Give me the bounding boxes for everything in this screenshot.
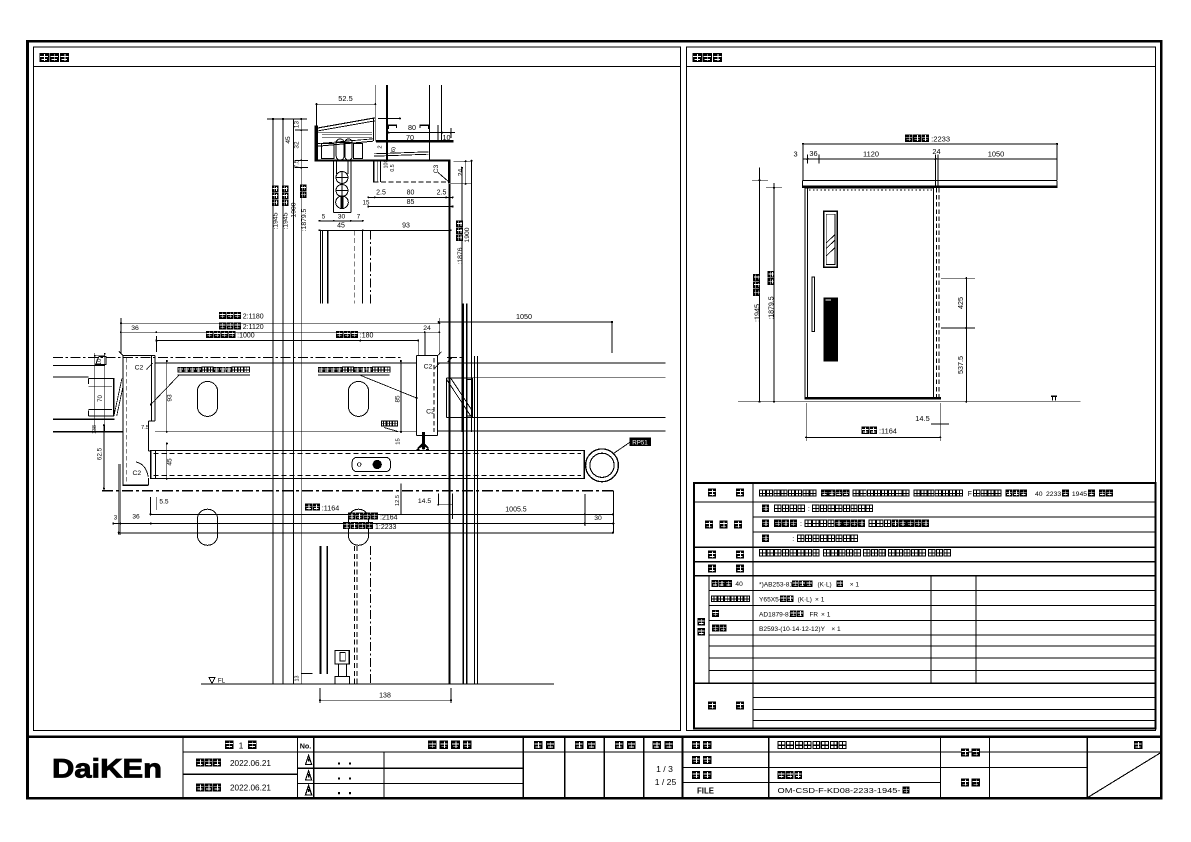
door bottom edge <box>805 397 941 399</box>
parts value dividers <box>930 576 932 684</box>
hood top tie line <box>378 117 400 119</box>
svg-text:× 1: × 1 <box>850 581 860 588</box>
dims 45 93 <box>320 229 451 231</box>
page diagonal <box>1087 752 1161 798</box>
svg-text:138: 138 <box>379 693 391 700</box>
label: shomenzu (front view) <box>693 53 702 62</box>
plan dim line 1180 <box>121 322 439 324</box>
label: kaitei-rireki (revision history) <box>428 741 437 750</box>
svg-text:3: 3 <box>114 515 118 522</box>
svg-text:13: 13 <box>294 121 301 129</box>
svg-text:0.5: 0.5 <box>390 164 396 171</box>
right dim verticals 1876/1900 <box>461 168 463 432</box>
svg-text:2.5: 2.5 <box>437 190 447 197</box>
svg-text::: : <box>800 521 802 528</box>
lower dash-dot line <box>102 490 613 492</box>
title block row lines <box>183 751 1161 753</box>
svg-text:30: 30 <box>338 213 346 220</box>
label: shiage (finish) <box>705 521 713 529</box>
svg-text::1945: :1945 <box>752 304 761 322</box>
svg-text:C2: C2 <box>426 409 435 416</box>
dim sotohaba 2233 line <box>803 143 1057 145</box>
svg-text:32: 32 <box>294 141 301 149</box>
label: hinban (product no) <box>692 756 700 764</box>
handle capsules in plan <box>197 381 217 416</box>
hanger bracket below header <box>333 161 335 213</box>
svg-text:425: 425 <box>956 297 965 309</box>
door panel in plan <box>151 451 584 479</box>
svg-text::1164: :1164 <box>322 503 339 512</box>
pocket dashed verticals <box>936 188 938 399</box>
svg-text:24: 24 <box>457 169 464 177</box>
right panel title band line <box>687 65 1156 67</box>
svg-text:5: 5 <box>322 213 326 220</box>
hinban vertical label <box>698 618 706 626</box>
left dim sotonori-daka 1945 <box>759 168 761 402</box>
door closer circle <box>586 449 619 482</box>
svg-text:40: 40 <box>735 581 743 588</box>
svg-text:62.5: 62.5 <box>97 447 104 460</box>
svg-text:70: 70 <box>98 395 104 402</box>
svg-text:1900: 1900 <box>464 227 471 242</box>
svg-text:OM-CSD-F-KD08-2233-1945-: OM-CSD-F-KD08-2233-1945- <box>778 788 902 795</box>
revision warning triangles <box>306 755 312 764</box>
svg-text:2022.06.21: 2022.06.21 <box>230 759 271 768</box>
svg-text:30: 30 <box>594 515 602 522</box>
left panel title band line <box>34 65 681 67</box>
door dark panel plate <box>824 298 838 362</box>
svg-text:15: 15 <box>363 200 370 207</box>
dim 5.5 <box>150 497 152 515</box>
wall thick lines <box>53 418 115 420</box>
dim 85 <box>368 206 452 208</box>
svg-text:40: 40 <box>1035 491 1043 498</box>
svg-text:FR: FR <box>809 611 818 618</box>
svg-text:24: 24 <box>932 147 940 156</box>
spec table outer <box>694 483 1156 729</box>
dim 45 vertical at jamb <box>166 444 168 479</box>
right panel frame <box>687 47 1156 730</box>
svg-text:1900: 1900 <box>291 202 298 217</box>
rotated height labels <box>272 186 280 230</box>
plan dim line 1120 <box>121 331 439 333</box>
parts row 4: hikite pull <box>712 625 719 632</box>
left wall end detail <box>53 365 105 367</box>
svg-text:1 / 25: 1 / 25 <box>655 777 677 787</box>
svg-text:1 / 3: 1 / 3 <box>656 764 673 774</box>
revision sub-divider <box>383 752 385 799</box>
finish row 2: stylene resin <box>762 520 769 527</box>
svg-text:36: 36 <box>809 149 817 158</box>
svg-text::2164: :2164 <box>380 514 398 521</box>
label: kakunin (checked) <box>575 741 583 749</box>
svg-text::1945: :1945 <box>273 212 280 229</box>
svg-text:2.5: 2.5 <box>376 190 386 197</box>
door window glazing <box>824 211 838 267</box>
TT floor mark <box>1051 395 1057 397</box>
svg-text::1000: :1000 <box>237 333 255 340</box>
long wall verticals top <box>374 85 376 141</box>
plan dim line 1000 and 180 <box>156 340 418 342</box>
svg-text:36: 36 <box>132 513 140 520</box>
value: sanmenzu <box>778 771 786 779</box>
label: danmenzu (section view) <box>40 53 49 62</box>
svg-text::1879.5: :1879.5 <box>769 296 776 319</box>
svg-text:C2: C2 <box>135 364 144 371</box>
svg-text:*)AB253-81: *)AB253-81 <box>759 581 793 588</box>
title block top line <box>28 736 1162 739</box>
svg-text:1: 1 <box>239 740 244 750</box>
label: katashiki (model) <box>708 489 716 497</box>
extension lines from dim to rail <box>802 164 804 181</box>
dim 62.5 vertical <box>103 425 105 488</box>
bottom dim line 2164 / 30 <box>113 523 613 525</box>
hanging rail <box>803 179 1057 181</box>
left extent line pair <box>117 464 119 535</box>
ticks on segment dim line <box>295 129 308 131</box>
left wall end flag <box>96 357 107 365</box>
parts row 1: fixed frame 40 <box>712 580 719 587</box>
dim 70 <box>388 132 442 134</box>
svg-text:7.5: 7.5 <box>294 159 301 168</box>
svg-text:100: 100 <box>384 160 390 169</box>
svg-text::1876: :1876 <box>457 247 464 264</box>
svg-text::2233: :2233 <box>931 135 950 144</box>
svg-text::: : <box>808 506 810 513</box>
left dim verticals 1945/1900/1879.5 <box>272 119 274 684</box>
label: biko (remarks) <box>708 702 716 710</box>
svg-text:× 1: × 1 <box>831 626 841 633</box>
svg-text:93: 93 <box>402 223 410 230</box>
floor line <box>201 683 554 685</box>
label: totte (handle) <box>708 551 716 559</box>
svg-text:45: 45 <box>166 458 173 466</box>
head frame top line <box>376 140 453 142</box>
dim label sotonori-haba 2233 <box>905 134 913 142</box>
floor line <box>738 401 1080 403</box>
plan dim extension verticals <box>120 318 122 353</box>
svg-text::1164: :1164 <box>879 427 897 436</box>
mohair label <box>381 421 386 426</box>
spec table label column <box>752 483 754 729</box>
title block verticals <box>182 737 184 798</box>
right wall end tick <box>448 358 453 363</box>
label: kenmei <box>961 748 969 756</box>
svg-text:45: 45 <box>285 136 292 144</box>
svg-text:2022.06.21: 2022.06.21 <box>230 783 271 792</box>
dim 24 right of frame box <box>465 161 467 184</box>
dim 10 <box>442 132 455 134</box>
label: zumei (drawing name) <box>692 771 700 779</box>
spec table row lines <box>694 501 1156 503</box>
label: dai-1-han (1st edition) <box>225 740 234 749</box>
parts row 2: rail set <box>711 596 717 602</box>
svg-text::180: :180 <box>360 333 374 340</box>
svg-text:FL: FL <box>218 678 226 685</box>
hood sloped cap <box>314 126 318 162</box>
parts sub column <box>708 576 710 684</box>
svg-text:RP51: RP51 <box>632 439 648 446</box>
svg-text:1:2233: 1:2233 <box>375 524 397 531</box>
dims 2.5 80 2.5 <box>368 196 452 198</box>
left panel frame <box>34 47 681 730</box>
svg-text:1945: 1945 <box>1072 491 1087 498</box>
finish row 3: frame olefin sheet <box>762 535 769 542</box>
hanger rollers <box>336 139 344 160</box>
label: page <box>1134 741 1142 749</box>
kaitei-bi date <box>196 783 204 791</box>
finish row 1: panel olefin sheet <box>762 505 769 512</box>
label: zuin <box>961 778 969 786</box>
svg-text:Y65X5-: Y65X5- <box>759 596 781 603</box>
door panel outline <box>804 188 806 399</box>
svg-text:AD1879-81: AD1879-81 <box>759 611 793 618</box>
svg-text:36: 36 <box>131 325 139 332</box>
svg-text::1879.5: :1879.5 <box>301 208 308 231</box>
svg-text:537.5: 537.5 <box>956 356 965 374</box>
header bottom thick line <box>316 159 451 161</box>
C3 frame box <box>373 161 375 183</box>
svg-text:13: 13 <box>294 676 300 682</box>
svg-text:FILE: FILE <box>697 786 714 795</box>
wall hatch diagonals <box>114 379 122 416</box>
bottom dim line 1164 / 1005.5 <box>151 513 613 515</box>
floor guide pedestal <box>335 651 349 665</box>
center pocket post C2 <box>416 356 418 436</box>
rail dotted guide <box>809 189 934 191</box>
svg-text:B2593-(10·14·12-12)Y: B2593-(10·14·12-12)Y <box>759 626 826 633</box>
svg-text:80: 80 <box>407 190 415 197</box>
label: buhin (parts) <box>708 565 716 573</box>
wall centerline dash-dot <box>53 356 402 358</box>
svg-text:F: F <box>968 491 972 498</box>
svg-text:× 1: × 1 <box>821 611 831 618</box>
right dim 425 / 537.5 <box>965 278 967 402</box>
bottom dim extension verticals right <box>584 494 586 526</box>
svg-text:12.5: 12.5 <box>395 495 401 506</box>
door handle bar <box>812 277 815 332</box>
post corner tick <box>437 352 441 356</box>
screw symbols <box>336 172 348 184</box>
80 clip marks <box>388 125 396 129</box>
svg-text:2:1120: 2:1120 <box>243 324 264 331</box>
svg-text:85: 85 <box>394 395 401 403</box>
label: shukushaku (scale) <box>653 741 661 749</box>
svg-text:15: 15 <box>395 438 401 444</box>
wall lines right of jamb <box>155 362 417 364</box>
svg-text:2233: 2233 <box>1046 491 1061 498</box>
model value row <box>759 490 765 496</box>
value: omoiyari series <box>778 741 785 748</box>
svg-text::: : <box>792 536 794 543</box>
floor level mark FL <box>209 677 215 683</box>
svg-text:7.5: 7.5 <box>141 425 149 431</box>
revision date dots <box>338 762 340 764</box>
svg-text:52.5: 52.5 <box>338 94 352 103</box>
svg-text:7: 7 <box>357 213 361 220</box>
jamb corner tick <box>119 352 123 356</box>
svg-text:1050: 1050 <box>988 150 1004 159</box>
cap screw label left (sute-waku screw cap) <box>178 367 184 373</box>
sloped filler lines <box>374 152 429 154</box>
svg-text:C3: C3 <box>433 164 440 173</box>
svg-text:C2: C2 <box>424 363 433 370</box>
svg-text:14.5: 14.5 <box>418 498 431 505</box>
parts row 3: door <box>712 610 719 617</box>
svg-text:24: 24 <box>423 325 431 332</box>
svg-text:DaiKEn: DaiKEn <box>52 753 162 784</box>
svg-text:2: 2 <box>377 145 383 148</box>
svg-text:(K·L): (K·L) <box>817 581 831 588</box>
svg-text:1120: 1120 <box>863 150 879 159</box>
svg-text:3: 3 <box>793 150 797 159</box>
svg-text:1050: 1050 <box>516 312 532 321</box>
label: meisho (name) <box>692 741 700 749</box>
svg-text:14.5: 14.5 <box>915 414 929 423</box>
handle value: erin nigiri bar <box>759 550 765 556</box>
mohair detail at post bottom <box>418 432 429 450</box>
dim 138 <box>320 699 451 701</box>
svg-text:1005.5: 1005.5 <box>505 506 527 513</box>
svg-text::1945: :1945 <box>283 212 290 229</box>
svg-text:45: 45 <box>337 223 345 230</box>
dim tobira-haba 1164 <box>806 436 940 438</box>
mid verticals between head and plan band <box>320 230 322 303</box>
svg-text:No.: No. <box>300 742 312 751</box>
svg-text:(6): (6) <box>391 147 397 154</box>
cap screw label right <box>318 367 324 373</box>
svg-text:× 1: × 1 <box>815 596 825 603</box>
left dim tobira-daka 1879.5 <box>773 183 775 402</box>
lower verticals to floor <box>320 546 322 674</box>
svg-text:C2: C2 <box>132 470 141 477</box>
svg-text:80: 80 <box>408 123 416 132</box>
dims 30 7 <box>320 220 363 222</box>
dims 85 and 15 at pocket <box>400 361 402 432</box>
dim 52.5 <box>317 103 376 105</box>
dim 93 vertical at jamb <box>166 361 168 432</box>
svg-text:93: 93 <box>166 394 173 402</box>
svg-text:(K·L): (K·L) <box>798 596 812 603</box>
dim sub line 3/36/1120/24/1050 <box>803 158 1057 160</box>
left jamb frame C2 <box>122 355 124 486</box>
svg-text:85: 85 <box>407 199 415 206</box>
svg-text:2:1180: 2:1180 <box>243 314 264 321</box>
seitei-bi date <box>196 759 204 767</box>
svg-text:5.5: 5.5 <box>159 499 168 506</box>
label: shonin (approved) <box>534 741 542 749</box>
door handle plate in plan <box>352 457 390 471</box>
label: sakusei (created) <box>615 741 623 749</box>
pocket sub-post with brace <box>446 378 448 418</box>
bottom dim line 2233 <box>119 532 613 534</box>
plan dim 1050 <box>439 321 612 323</box>
